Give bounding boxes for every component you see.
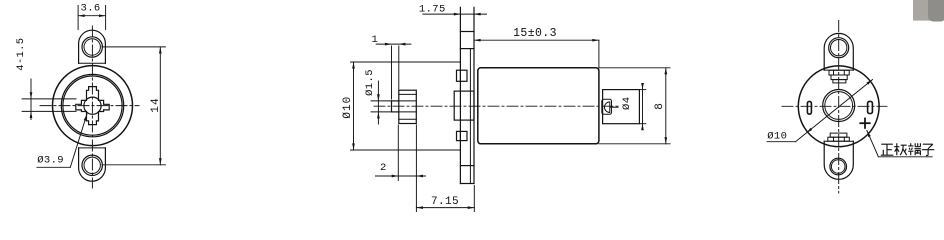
svg-text:Ø10: Ø10 <box>767 131 787 143</box>
svg-text:4-1.5: 4-1.5 <box>15 38 27 71</box>
svg-text:1: 1 <box>372 34 379 46</box>
svg-text:Ø1.5: Ø1.5 <box>364 69 376 96</box>
svg-text:3.6: 3.6 <box>81 3 101 15</box>
svg-text:Ø3.9: Ø3.9 <box>37 154 64 166</box>
svg-text:15±0.3: 15±0.3 <box>513 27 557 40</box>
svg-text:2: 2 <box>380 162 387 174</box>
svg-text:1.75: 1.75 <box>419 4 446 16</box>
svg-text:Ø4: Ø4 <box>621 97 633 110</box>
svg-text:7.15: 7.15 <box>431 196 459 208</box>
svg-text:14: 14 <box>150 97 162 113</box>
svg-text:Ø10: Ø10 <box>342 96 354 119</box>
svg-text:8: 8 <box>654 103 666 110</box>
